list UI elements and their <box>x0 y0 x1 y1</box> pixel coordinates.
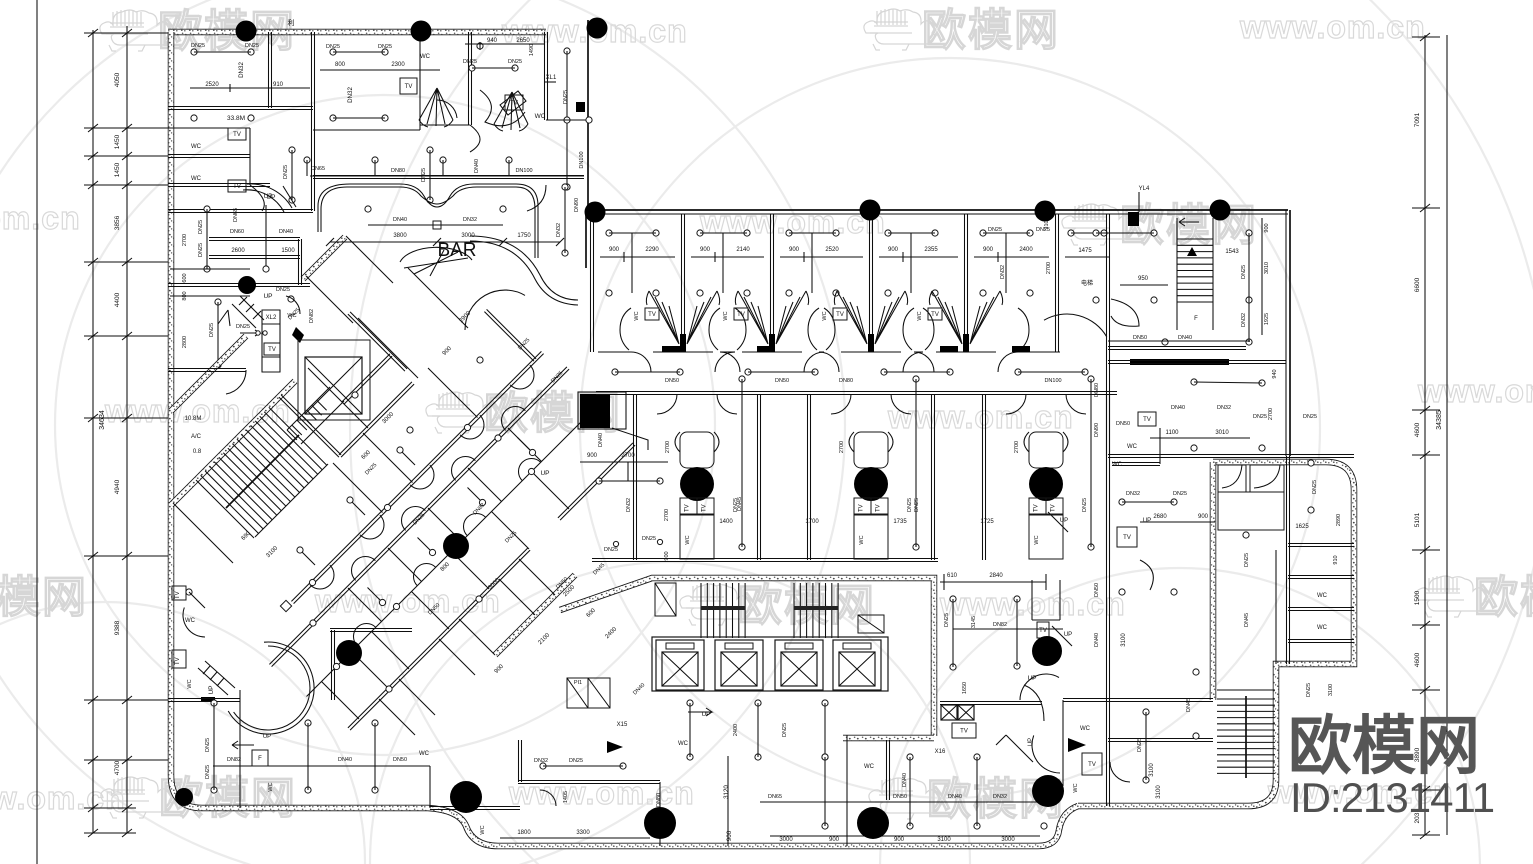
svg-text:WC: WC <box>480 825 486 834</box>
svg-text:DN25: DN25 <box>283 165 289 179</box>
svg-text:DN80: DN80 <box>656 793 662 807</box>
svg-text:WC: WC <box>1317 625 1328 631</box>
left mid rooms <box>243 190 284 212</box>
svg-text:900: 900 <box>888 247 899 253</box>
bottom-left dot <box>175 788 193 806</box>
svg-text:10.8M: 10.8M <box>185 416 202 422</box>
svg-text:3000: 3000 <box>779 837 793 843</box>
top-left block interior <box>269 32 272 108</box>
bottom dot 3 <box>1032 775 1064 807</box>
svg-text:DN45: DN45 <box>1186 698 1192 712</box>
svg-text:WC: WC <box>268 782 274 791</box>
svg-text:6600: 6600 <box>1414 277 1421 292</box>
riser line x589 <box>587 20 589 211</box>
center room band <box>634 394 637 560</box>
svg-text:DN25: DN25 <box>988 227 1002 233</box>
svg-text:900: 900 <box>587 453 598 459</box>
band dot 1 <box>860 200 881 221</box>
closets <box>655 583 676 616</box>
svg-text:1405: 1405 <box>563 791 569 803</box>
guest room band top wall <box>596 209 1288 211</box>
svg-text:1725: 1725 <box>980 519 994 525</box>
wing lower boundary piece <box>495 575 575 655</box>
svg-text:DN25: DN25 <box>914 498 920 512</box>
svg-text:2700: 2700 <box>182 234 188 246</box>
svg-text:DN32: DN32 <box>347 87 354 103</box>
top dot 3 <box>587 18 608 39</box>
svg-text:800: 800 <box>335 62 346 68</box>
left dimension lines <box>36 0 38 864</box>
svg-text:DN25: DN25 <box>944 613 950 627</box>
svg-text:TV: TV <box>1039 628 1047 634</box>
svg-text:DN32: DN32 <box>1000 265 1006 279</box>
svg-text:WC: WC <box>191 144 202 150</box>
svg-text:TV: TV <box>931 312 939 318</box>
svg-text:电梯: 电梯 <box>1081 279 1093 287</box>
svg-text:2700: 2700 <box>664 509 670 521</box>
BAR room outline <box>318 184 538 258</box>
svg-text:1925: 1925 <box>1264 313 1270 325</box>
svg-text:WC: WC <box>187 679 193 688</box>
bottom dot 2 <box>857 807 889 839</box>
right wing top stair block <box>1107 214 1110 456</box>
svg-text:DN32: DN32 <box>556 223 562 237</box>
svg-text:9388: 9388 <box>114 620 121 635</box>
svg-text:2300: 2300 <box>391 62 405 68</box>
svg-text:DN25: DN25 <box>642 536 656 542</box>
svg-text:TV: TV <box>836 312 844 318</box>
svg-text:3120: 3120 <box>723 785 730 799</box>
svg-text:WC: WC <box>1317 593 1328 599</box>
svg-text:YL4: YL4 <box>1139 186 1150 192</box>
block staircase <box>1217 698 1275 700</box>
bottom-right block inner left wall <box>1210 462 1217 700</box>
svg-text:DN25: DN25 <box>236 324 250 330</box>
svg-text:2890: 2890 <box>1336 514 1342 526</box>
svg-text:3145: 3145 <box>971 616 977 628</box>
svg-text:3100: 3100 <box>1156 785 1162 799</box>
svg-text:DN25: DN25 <box>569 758 583 764</box>
svg-text:UP: UP <box>266 194 275 201</box>
svg-text:DN45: DN45 <box>737 497 743 511</box>
svg-text:1475: 1475 <box>1078 248 1092 254</box>
svg-text:DN45: DN45 <box>1244 613 1250 627</box>
svg-text:DN25: DN25 <box>378 44 392 50</box>
svg-text:F: F <box>1194 316 1198 322</box>
svg-text:DN32: DN32 <box>626 498 632 512</box>
svg-text:WC: WC <box>822 311 828 320</box>
svg-text:3010: 3010 <box>1215 430 1229 436</box>
svg-text:DN25: DN25 <box>1253 414 1267 420</box>
guest room door cluster <box>738 291 768 344</box>
elevators <box>652 637 888 691</box>
bottom right block interior <box>1218 465 1246 492</box>
svg-text:1500: 1500 <box>281 248 295 254</box>
svg-text:DN25: DN25 <box>1173 491 1187 497</box>
svg-text:2520: 2520 <box>205 82 219 88</box>
svg-text:TV: TV <box>960 729 968 735</box>
riser dot core east <box>1032 636 1062 666</box>
svg-text:TV: TV <box>268 347 276 353</box>
svg-text:DN50: DN50 <box>775 378 789 384</box>
svg-text:1490: 1490 <box>529 44 535 56</box>
svg-text:1450: 1450 <box>114 134 121 149</box>
svg-text:DN25: DN25 <box>191 43 205 49</box>
svg-text:DN40: DN40 <box>279 229 293 235</box>
svg-text:TV: TV <box>685 504 691 512</box>
svg-text:2700: 2700 <box>1014 441 1020 453</box>
svg-text:WC: WC <box>685 535 691 544</box>
svg-text:1543: 1543 <box>1225 249 1239 255</box>
svg-text:WC: WC <box>1080 726 1091 732</box>
svg-text:900: 900 <box>829 837 840 843</box>
svg-text:DN32: DN32 <box>238 62 245 78</box>
svg-text:4400: 4400 <box>114 292 121 307</box>
svg-text:4600: 4600 <box>1414 652 1421 667</box>
riser dot wing low <box>336 640 362 666</box>
svg-text:TV: TV <box>1143 417 1151 423</box>
svg-text:WC: WC <box>1073 783 1079 792</box>
svg-text:DN25: DN25 <box>205 738 211 752</box>
upper corridor pipe line <box>310 175 584 177</box>
svg-text:WC: WC <box>864 764 875 770</box>
svg-text:DN25: DN25 <box>1303 414 1317 420</box>
bottom-right block outer wall <box>1078 462 1354 806</box>
top dot 2 <box>411 21 432 42</box>
svg-text:4600: 4600 <box>1414 422 1421 437</box>
guest room door cluster <box>649 291 679 344</box>
svg-text:DN82: DN82 <box>309 309 315 323</box>
svg-text:3300: 3300 <box>576 830 590 836</box>
svg-text:2400: 2400 <box>733 724 739 736</box>
svg-text:3800: 3800 <box>393 233 407 239</box>
svg-text:DN80: DN80 <box>839 378 853 384</box>
svg-text:WC: WC <box>917 311 923 320</box>
wing staircase <box>196 480 254 538</box>
BAR lobby curved walls <box>470 236 578 300</box>
svg-text:1100: 1100 <box>1166 430 1180 436</box>
svg-text:DN25: DN25 <box>209 323 215 337</box>
svg-text:DN60: DN60 <box>230 229 244 235</box>
svg-text:2400: 2400 <box>1019 247 1033 253</box>
svg-text:DN25: DN25 <box>198 220 204 234</box>
svg-text:DN40: DN40 <box>1171 405 1185 411</box>
svg-text:1735: 1735 <box>893 519 907 525</box>
svg-text:DN25: DN25 <box>563 90 569 104</box>
guest room band <box>591 214 594 352</box>
svg-text:4700: 4700 <box>114 760 121 775</box>
svg-text:1700: 1700 <box>805 519 819 525</box>
svg-text:2290: 2290 <box>645 247 659 253</box>
room riser dot <box>1029 467 1063 501</box>
svg-text:WC: WC <box>859 535 865 544</box>
svg-text:UP: UP <box>1064 632 1072 638</box>
svg-text:DN40: DN40 <box>948 794 962 800</box>
svg-text:3100: 3100 <box>1121 633 1127 647</box>
svg-text:900: 900 <box>789 247 800 253</box>
svg-text:2680: 2680 <box>1153 514 1167 520</box>
svg-text:WC: WC <box>185 618 196 624</box>
svg-text:DN32: DN32 <box>1126 491 1140 497</box>
svg-text:DN25: DN25 <box>1244 553 1250 567</box>
svg-text:1500: 1500 <box>1414 590 1421 605</box>
svg-text:DN25: DN25 <box>1137 738 1143 752</box>
svg-text:DN25: DN25 <box>782 723 788 737</box>
elevator core stairs <box>700 583 702 638</box>
svg-text:2700: 2700 <box>621 453 635 459</box>
svg-text:34634: 34634 <box>99 410 106 430</box>
svg-text:DN40: DN40 <box>598 433 604 447</box>
svg-text:TV: TV <box>1034 504 1040 512</box>
round lobby bottom-left <box>228 642 314 734</box>
svg-text:900: 900 <box>983 247 994 253</box>
svg-text:3000: 3000 <box>1001 837 1015 843</box>
top dot 1 <box>236 21 257 42</box>
svg-text:34385: 34385 <box>1436 410 1443 430</box>
svg-text:UP: UP <box>263 293 272 300</box>
svg-text:DN90: DN90 <box>1094 423 1100 437</box>
svg-text:WC: WC <box>191 176 202 182</box>
svg-text:1650: 1650 <box>962 682 968 694</box>
svg-text:TV: TV <box>510 101 518 107</box>
svg-text:A/C: A/C <box>191 434 202 440</box>
svg-text:2840: 2840 <box>989 573 1003 579</box>
svg-text:DN25: DN25 <box>1036 227 1050 233</box>
riser shaft filled <box>580 394 610 428</box>
svg-text:2700: 2700 <box>839 441 845 453</box>
svg-text:DN50: DN50 <box>665 378 679 384</box>
svg-text:1750: 1750 <box>517 233 531 239</box>
svg-text:TV: TV <box>737 312 745 318</box>
svg-text:5101: 5101 <box>1414 512 1421 527</box>
svg-text:DN32: DN32 <box>1217 405 1231 411</box>
svg-text:7091: 7091 <box>1414 112 1421 127</box>
svg-text:欧模网: 欧模网 <box>1288 710 1480 782</box>
svg-text:600: 600 <box>182 273 188 282</box>
svg-text:DN40: DN40 <box>393 217 407 223</box>
svg-text:TV: TV <box>702 504 708 512</box>
svg-text:2650: 2650 <box>516 38 530 44</box>
svg-text:DN25: DN25 <box>1312 480 1318 494</box>
svg-text:3100: 3100 <box>1149 763 1155 777</box>
svg-text:DN25: DN25 <box>1241 265 1247 279</box>
svg-text:UP: UP <box>540 470 549 477</box>
svg-text:DN40: DN40 <box>902 773 908 787</box>
svg-text:DN65: DN65 <box>233 208 239 222</box>
svg-text:910: 910 <box>273 82 284 88</box>
svg-text:1625: 1625 <box>1295 524 1309 530</box>
svg-text:DN25: DN25 <box>1306 683 1312 697</box>
svg-text:610: 610 <box>947 573 958 579</box>
svg-text:1400: 1400 <box>719 519 733 525</box>
svg-text:900: 900 <box>609 247 620 253</box>
svg-text:950: 950 <box>1138 276 1149 282</box>
svg-text:TV: TV <box>648 312 656 318</box>
svg-text:DN82: DN82 <box>227 757 241 763</box>
svg-text:0.8: 0.8 <box>193 449 202 455</box>
svg-text:3000: 3000 <box>461 233 475 239</box>
svg-text:DN100: DN100 <box>1044 378 1061 384</box>
svg-text:TV: TV <box>233 132 241 138</box>
svg-text:DN65: DN65 <box>311 166 325 172</box>
left riser dot <box>238 276 256 294</box>
guest room door cluster <box>837 291 867 344</box>
svg-text:DN32: DN32 <box>463 217 477 223</box>
svg-text:TV: TV <box>175 591 181 599</box>
svg-text:ID:2131411: ID:2131411 <box>1290 774 1494 821</box>
svg-text:DN25: DN25 <box>205 765 211 779</box>
svg-text:DN80: DN80 <box>391 168 405 174</box>
svg-text:WC: WC <box>419 751 430 757</box>
svg-text:DN25: DN25 <box>463 59 477 65</box>
elevator core wall <box>560 578 934 736</box>
svg-text:2700: 2700 <box>1268 408 1274 420</box>
svg-text:910: 910 <box>1333 555 1339 564</box>
svg-text:900: 900 <box>700 247 711 253</box>
svg-text:TV: TV <box>876 504 882 512</box>
svg-text:900: 900 <box>1198 514 1209 520</box>
svg-text:DN40: DN40 <box>1178 335 1192 341</box>
bottom dot 0 <box>450 781 482 813</box>
svg-text:940: 940 <box>1272 369 1278 378</box>
svg-text:2700: 2700 <box>665 441 671 453</box>
svg-text:2355: 2355 <box>924 247 938 253</box>
svg-text:940: 940 <box>487 38 498 44</box>
svg-text:DN50: DN50 <box>893 794 907 800</box>
right dimension lines <box>1424 35 1426 835</box>
riser dot wing mid <box>443 533 469 559</box>
svg-text:2140: 2140 <box>736 247 750 253</box>
svg-text:33.8M: 33.8M <box>227 115 245 122</box>
wing upper outer wall seg1 <box>303 237 345 279</box>
svg-text:WC: WC <box>723 311 729 320</box>
svg-text:DN40: DN40 <box>474 159 480 173</box>
svg-text:DN25: DN25 <box>604 547 618 553</box>
svg-text:DN32: DN32 <box>1241 313 1247 327</box>
svg-text:900: 900 <box>894 837 905 843</box>
svg-text:4940: 4940 <box>114 479 121 494</box>
svg-text:DN25: DN25 <box>508 59 522 65</box>
svg-text:WC: WC <box>420 54 431 60</box>
band dot 0 <box>585 202 606 223</box>
svg-text:利: 利 <box>288 18 295 27</box>
guest room door cluster <box>932 291 962 344</box>
svg-text:900: 900 <box>664 551 670 560</box>
wing elevator <box>305 357 362 414</box>
svg-text:UP: UP <box>1060 518 1068 524</box>
svg-text:X15: X15 <box>617 722 628 728</box>
svg-text:2800: 2800 <box>182 336 188 348</box>
svg-text:DN25: DN25 <box>276 287 290 293</box>
svg-text:DN25: DN25 <box>907 498 913 512</box>
main corridor <box>596 392 1117 395</box>
svg-text:DN25: DN25 <box>1082 498 1088 512</box>
svg-text:DN50: DN50 <box>1116 421 1130 427</box>
svg-text:WC: WC <box>1127 444 1138 450</box>
wing upper outer wall seg2 <box>171 336 246 411</box>
svg-text:2700: 2700 <box>1046 262 1052 274</box>
svg-text:DN82: DN82 <box>993 622 1007 628</box>
svg-text:4050: 4050 <box>114 72 121 87</box>
room riser dot <box>680 467 714 501</box>
svg-text:TV: TV <box>175 657 181 665</box>
core bottom wall <box>843 735 934 742</box>
svg-text:PI1: PI1 <box>574 680 582 686</box>
left + bottom outer wall <box>171 32 1078 846</box>
escalator <box>287 387 344 444</box>
svg-text:WC: WC <box>634 311 640 320</box>
svg-text:2600: 2600 <box>231 248 245 254</box>
svg-text:TV: TV <box>1051 504 1057 512</box>
svg-text:XL2: XL2 <box>266 315 277 321</box>
right wing dot <box>1210 200 1231 221</box>
PI1 shafts <box>567 678 588 708</box>
svg-text:UP: UP <box>1143 518 1151 524</box>
top-left block top wall <box>168 29 546 36</box>
svg-text:900: 900 <box>1264 223 1270 232</box>
svg-text:DN40: DN40 <box>338 757 352 763</box>
svg-text:DN100: DN100 <box>515 168 532 174</box>
svg-text:DN25: DN25 <box>198 243 204 257</box>
svg-text:TV: TV <box>405 84 413 90</box>
svg-text:DN100: DN100 <box>579 151 585 168</box>
stair upper wall <box>171 381 295 505</box>
room riser dot <box>854 467 888 501</box>
svg-text:DN50: DN50 <box>1133 335 1147 341</box>
svg-text:X16: X16 <box>935 749 946 755</box>
svg-text:3010: 3010 <box>1264 262 1270 274</box>
svg-text:UP: UP <box>263 734 271 740</box>
svg-text:3856: 3856 <box>114 215 121 230</box>
svg-text:DN65: DN65 <box>768 794 782 800</box>
bottom dot 1 <box>644 807 676 839</box>
svg-text:DN32: DN32 <box>993 794 1007 800</box>
svg-text:WC: WC <box>678 741 689 747</box>
svg-text:TV: TV <box>233 184 241 190</box>
svg-text:2520: 2520 <box>825 247 839 253</box>
svg-text:DN90: DN90 <box>574 198 580 212</box>
svg-text:DN25: DN25 <box>326 44 340 50</box>
watermark circles <box>55 95 715 755</box>
svg-text:3100: 3100 <box>937 837 951 843</box>
band dot 2 <box>1035 201 1056 222</box>
svg-text:DN40: DN40 <box>1094 633 1100 647</box>
svg-text:900: 900 <box>726 830 733 841</box>
svg-text:3100: 3100 <box>1328 684 1334 696</box>
svg-text:TV: TV <box>859 504 865 512</box>
svg-text:UP: UP <box>208 685 215 694</box>
svg-text:DN80: DN80 <box>1094 383 1100 397</box>
svg-text:DN25: DN25 <box>245 43 259 49</box>
svg-text:DN50: DN50 <box>1094 583 1100 597</box>
svg-text:TV: TV <box>1088 762 1096 768</box>
svg-text:WC: WC <box>1034 535 1040 544</box>
svg-text:TV: TV <box>1123 535 1131 541</box>
svg-text:F: F <box>258 756 262 762</box>
svg-text:DN50: DN50 <box>393 757 407 763</box>
bottom right rooms of main body <box>846 735 848 846</box>
bottom band rooms <box>168 699 240 702</box>
svg-text:1800: 1800 <box>517 830 531 836</box>
svg-text:1450: 1450 <box>114 162 121 177</box>
